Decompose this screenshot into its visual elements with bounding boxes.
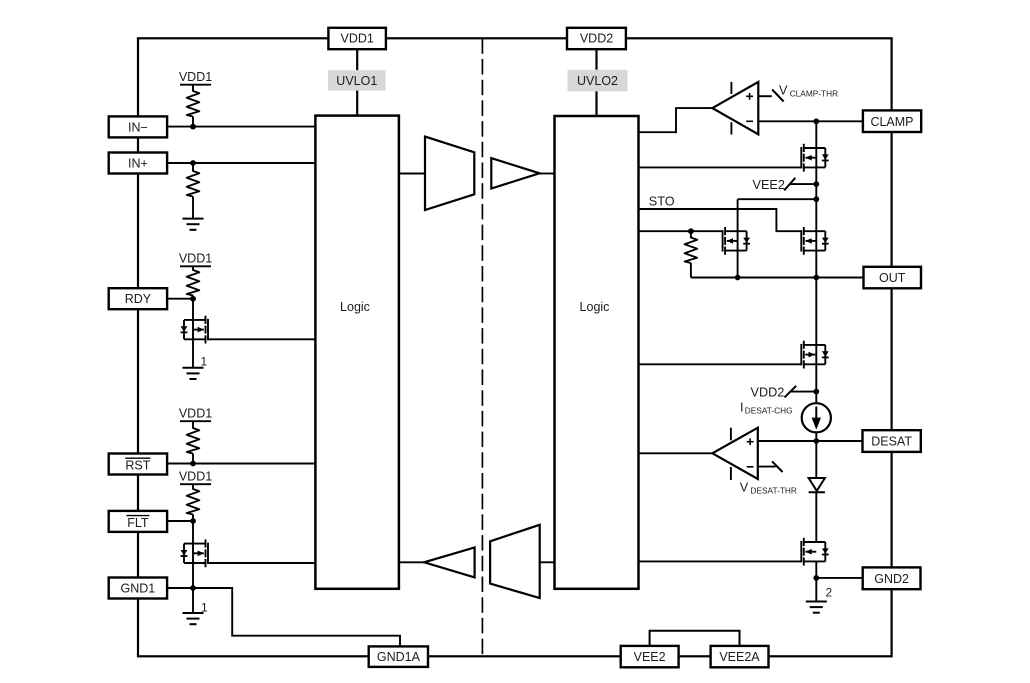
svg-text:VDD2: VDD2 <box>580 32 613 46</box>
wire IN- to logic U1 <box>167 126 315 128</box>
svg-text:VDD1: VDD1 <box>341 32 374 46</box>
svg-text:GND1: GND1 <box>121 582 156 596</box>
svg-text:V: V <box>740 481 749 495</box>
comparator U3 (clamp) <box>712 82 758 135</box>
node at OUT line right <box>813 275 819 281</box>
label I DESAT-CHG <box>740 401 793 416</box>
wire Q1 gate to logic U1 <box>208 338 315 340</box>
IC boundary frame <box>138 38 892 656</box>
pin VEE2 <box>621 646 679 667</box>
wire STO from logic U2 to Q6 gate <box>639 209 802 231</box>
pin IN- <box>109 116 167 137</box>
pin FLT (active low) <box>109 511 167 532</box>
wire RDY column rail <box>192 299 194 368</box>
svg-text:VEE2: VEE2 <box>634 650 666 664</box>
svg-text:DESAT-THR: DESAT-THR <box>751 486 797 496</box>
pin RDY <box>109 288 167 309</box>
svg-text:VDD1: VDD1 <box>179 407 212 421</box>
ground (below GND1) <box>183 613 204 624</box>
svg-text:VDD1: VDD1 <box>179 70 212 84</box>
VEE2 tap lead <box>791 183 817 185</box>
wire DESAT node to diode D1 <box>815 441 817 478</box>
tap slash V CLAMP-THR <box>772 90 784 102</box>
transistor Q3 (output pull-up FET) <box>801 341 828 369</box>
logic block U2 <box>555 116 639 589</box>
resistor R3 (RDY pull-up) <box>187 266 200 298</box>
svg-text:IN+: IN+ <box>128 157 148 171</box>
label V CLAMP-THR <box>779 83 838 98</box>
resistor R1 (IN- pull-up) <box>187 85 200 127</box>
pin GND1 <box>109 578 167 599</box>
wire RST to logic U1 <box>167 463 315 465</box>
wire VDD1 box to UVLO1 <box>356 49 358 70</box>
wire OUT line <box>691 277 864 279</box>
wire current source to DESAT line <box>815 432 817 441</box>
svg-text:I: I <box>740 401 744 415</box>
svg-text:VDD1: VDD1 <box>179 470 212 484</box>
pin GND2 <box>863 567 921 589</box>
svg-text:Logic: Logic <box>340 300 370 314</box>
svg-text:V: V <box>779 83 788 97</box>
svg-text:RDY: RDY <box>125 292 152 306</box>
svg-text:VEE2A: VEE2A <box>719 650 760 664</box>
diode D1 (DESAT blanking) <box>809 478 825 492</box>
wire FLT pin to node <box>167 520 193 522</box>
wire VDD2 box to UVLO2 <box>595 49 597 70</box>
tap slash VEE2 <box>784 178 795 191</box>
ground (GND2, numeral 2) <box>806 602 827 613</box>
wire TX2 to logic U2 <box>540 561 555 563</box>
buffer RX2 (triangle, reverse channel) <box>424 548 475 578</box>
svg-text:DESAT: DESAT <box>871 435 912 449</box>
svg-text:VDD1: VDD1 <box>179 252 212 266</box>
svg-text:Logic: Logic <box>580 300 610 314</box>
node at R5 top <box>688 228 694 234</box>
svg-text:1: 1 <box>201 355 208 369</box>
wire logic U2 to Q5 gate <box>639 230 723 232</box>
wire comparator U4 plus input to DESAT pin <box>758 440 863 442</box>
wire CLAMP node down to Q4 <box>815 121 817 199</box>
wire Q2 gate to logic U1 <box>208 562 315 564</box>
ground (Q1 source) <box>183 368 204 379</box>
svg-text:CLAMP-THR: CLAMP-THR <box>790 88 838 98</box>
jumper VEE2 to VEE2A <box>650 631 740 646</box>
wire comparator U4 output to logic U2 <box>639 452 713 454</box>
wire IN+ to logic U1 <box>167 162 315 164</box>
node on GND1 line <box>190 585 196 591</box>
pin IN+ <box>109 153 167 174</box>
svg-text:UVLO1: UVLO1 <box>336 74 377 88</box>
tap slash VDD2 <box>785 386 797 398</box>
VDD2 tap lead <box>791 391 816 393</box>
logic block U1 <box>315 116 399 589</box>
node at VEE2 tap <box>813 181 819 187</box>
wire main rail Q6 to Q3 <box>815 199 817 391</box>
resistor R4a (RST pull-up) <box>187 421 200 463</box>
wire comparator U3 plus input stub <box>758 95 772 97</box>
ground (IN+ resistor) <box>183 219 204 230</box>
wire diode D1 to Q7 <box>815 492 817 542</box>
wire Q5 drain column <box>737 199 739 277</box>
pin VDD2 <box>567 28 626 49</box>
UVLO1 block <box>328 70 386 90</box>
VDD1 rail label (RDY pull-up) <box>179 252 212 267</box>
tap slash V DESAT-THR <box>772 461 783 472</box>
pin CLAMP <box>863 110 921 132</box>
node on RDY line <box>190 296 196 302</box>
pin VDD1 <box>328 28 386 49</box>
svg-text:1: 1 <box>201 601 208 615</box>
wire GND1 node to ground <box>192 588 194 613</box>
resistor R4b (FLT pull-up) <box>187 484 200 521</box>
svg-text:GND1A: GND1A <box>377 650 421 664</box>
node at OUT line left <box>735 275 741 281</box>
wire Q7 gate to logic U2 <box>639 560 802 562</box>
transistor Q4 (clamp FET) <box>801 144 828 172</box>
transistor Q1 (RDY pull-down) <box>181 316 208 344</box>
transistor Q6 (STO pull-down FET) <box>801 227 828 255</box>
VDD1 rail label (FLT pull-up) <box>179 470 212 485</box>
wire GND2 node to GND2 pin <box>816 577 862 579</box>
transistor Q7 (DESAT discharge FET) <box>801 538 828 566</box>
buffer RX1 (triangle, forward channel) <box>491 158 539 188</box>
svg-text:CLAMP: CLAMP <box>870 115 913 129</box>
comparator U4 (DESAT) <box>712 428 757 480</box>
VDD1 rail label (IN- pull-up) <box>179 70 212 85</box>
svg-text:DESAT-CHG: DESAT-CHG <box>745 406 793 416</box>
resistor R2 (IN+ pull-down) <box>187 163 200 219</box>
node at GND2 line <box>813 575 819 581</box>
transistor Q2 (FLT pull-down) <box>181 539 208 567</box>
wire Q3 gate to logic U2 <box>639 363 802 365</box>
node on RST line <box>190 461 196 467</box>
svg-text:GND2: GND2 <box>874 572 909 586</box>
node at CLAMP line <box>813 118 819 124</box>
wire logic U1 to TX buffer <box>399 173 425 175</box>
wire comparator U3 output to logic U2 <box>639 108 713 132</box>
node at DESAT line <box>813 438 819 444</box>
isolation barrier (dashed) <box>481 38 483 656</box>
wire UVLO2 to logic U2 <box>595 91 597 116</box>
buffer TX1 (trapezoid, forward channel) <box>425 137 474 210</box>
UVLO2 block <box>568 70 628 92</box>
svg-text:FLT: FLT <box>127 516 149 530</box>
node at VDD2 tap <box>813 389 819 395</box>
wire VDD2 node to current source <box>815 392 817 403</box>
svg-text:2: 2 <box>826 586 833 600</box>
node on IN+ line <box>190 160 196 166</box>
wire comparator U4 minus input stub <box>758 466 776 468</box>
pin VEE2A <box>711 646 769 667</box>
wire logic U1 to RX2 <box>399 561 424 563</box>
svg-text:STO: STO <box>649 195 675 209</box>
wire Q4 gate to logic U2 <box>639 166 802 168</box>
wire RDY pin to node <box>167 298 193 300</box>
current source I1 arrow <box>812 407 821 430</box>
buffer TX2 (trapezoid, reverse channel) <box>490 525 540 598</box>
wire VEE2 node cross line <box>738 198 817 200</box>
node on FLT line <box>190 518 196 524</box>
current source I1 circle <box>802 403 831 432</box>
node at VEE2 cross line <box>813 196 819 202</box>
svg-text:VEE2: VEE2 <box>753 178 785 192</box>
transistor Q5 (pull-down FET) <box>723 227 750 255</box>
svg-text:RST: RST <box>125 459 150 473</box>
pin OUT <box>864 267 922 289</box>
resistor R5 (gate clamp) <box>685 231 698 277</box>
svg-text:VDD2: VDD2 <box>751 385 785 399</box>
wire comparator U3 minus input to CLAMP pin <box>758 120 863 122</box>
wire FLT column rail <box>192 521 194 588</box>
node on IN- line <box>190 124 196 130</box>
wire UVLO1 to logic U1 <box>356 91 358 116</box>
pin GND1A <box>369 646 428 667</box>
label V DESAT-THR <box>740 481 797 496</box>
pin RST (active low) <box>109 454 167 475</box>
svg-text:IN−: IN− <box>128 120 148 134</box>
wire GND1 pin to GND1A routing <box>167 588 400 646</box>
VDD1 rail label (RST pull-up) <box>179 407 212 422</box>
svg-text:UVLO2: UVLO2 <box>577 74 618 88</box>
wire Q7 to GND2 node rail <box>815 561 817 601</box>
pin DESAT <box>863 430 921 452</box>
wire RX1 to logic U2 <box>540 173 555 175</box>
svg-text:OUT: OUT <box>879 271 906 285</box>
